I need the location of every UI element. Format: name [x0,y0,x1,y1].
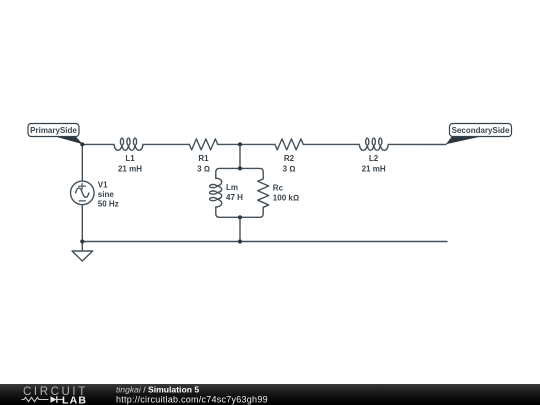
wire: middle node to R2 [240,143,275,145]
ground stem [81,242,83,252]
footer bar [0,384,540,405]
svg-text:50 Hz: 50 Hz [98,200,119,209]
label R1 value [197,154,210,174]
svg-text:LAB: LAB [62,395,87,405]
svg-text:Rc: Rc [273,183,284,192]
label Lm value [226,183,243,202]
resistor R1 [189,139,217,150]
svg-text:PrimarySide: PrimarySide [30,126,77,135]
svg-text:L1: L1 [125,154,135,163]
svg-text:R1: R1 [198,154,209,163]
wire: V1 down to bottom rail [81,205,83,242]
node: shunt bottom bus junction [238,215,242,219]
voltage source V1 minus sign [79,200,85,202]
logo resistor zigzag [22,397,49,401]
callout PrimarySide [28,124,83,145]
wire: middle node down to shunt top bus [239,144,241,168]
label Rc value [273,183,299,202]
voltage source V1 sine wave [76,188,89,197]
svg-text:Lm: Lm [226,183,238,192]
wire: shunt bottom bus down to bottom rail [239,217,241,241]
resistor R2 [275,139,303,150]
svg-text:3 Ω: 3 Ω [197,165,210,174]
svg-text:3 Ω: 3 Ω [283,165,296,174]
inductor L1 [114,138,143,150]
svg-text:21 mH: 21 mH [362,165,386,174]
voltage source V1 plus sign [79,183,86,189]
svg-text:http://circuitlab.com/c74sc7y6: http://circuitlab.com/c74sc7y63gh99 [116,394,268,404]
label L1 value [118,154,142,174]
inductor Lm [210,178,222,207]
label R2 value [283,154,296,174]
wire: R2 to L2 [303,143,359,145]
node: ground junction on bottom rail [80,239,84,243]
wire: L2 to secondary terminal [388,143,446,145]
label L2 value [362,154,386,174]
wire: primary node to L1 [82,143,114,145]
wire: primary node down to V1 [81,144,83,181]
ground triangle [72,251,93,261]
resistor Rc [258,179,269,207]
svg-text:R2: R2 [284,154,295,163]
svg-text:sine: sine [98,190,115,199]
callout SecondarySide [446,124,512,145]
label V1 value [98,180,119,208]
svg-text:tingkai / Simulation 5: tingkai / Simulation 5 [116,384,199,394]
svg-text:47 H: 47 H [226,193,243,202]
node: bottom rail junction [238,239,242,243]
logo diode [51,396,57,403]
wire: R1 to middle node [218,143,240,145]
node: shunt top bus junction [238,166,242,170]
svg-text:21 mH: 21 mH [118,165,142,174]
svg-text:L2: L2 [369,154,379,163]
node: middle top junction [238,142,242,146]
svg-text:V1: V1 [98,180,108,189]
wire: bottom rail [82,241,447,243]
wire: shunt bottom bus [216,207,263,217]
node: primary top junction [80,142,84,146]
wire: shunt top bus [216,168,263,179]
svg-text:SecondarySide: SecondarySide [452,126,510,135]
wire: L1 to R1 [143,143,189,145]
svg-text:100 kΩ: 100 kΩ [273,193,299,202]
inductor L2 [359,138,388,150]
voltage source V1 circle [71,181,95,205]
